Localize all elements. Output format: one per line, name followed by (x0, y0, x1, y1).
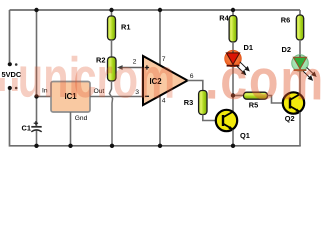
svg-text:R4: R4 (219, 14, 229, 23)
wire C1 column upper (36, 10, 38, 126)
watermark partial letter left edge (0, 45, 20, 109)
svg-text:R6: R6 (281, 16, 290, 25)
D2 emission arrows (303, 67, 316, 80)
wire pin7 (159, 10, 161, 65)
junction dot D1/R5/Q1 (231, 93, 235, 97)
wire R5 to Q2 base (268, 96, 291, 104)
C1 polarity plus (34, 121, 38, 125)
svg-text:Q2: Q2 (285, 114, 295, 123)
wire C1 column lower (36, 130, 38, 146)
regulator IC1 (51, 82, 90, 113)
wire top rail (10, 9, 301, 11)
svg-text:Gnd: Gnd (75, 115, 88, 122)
wire R4 top stub (232, 10, 234, 16)
junction dot In branch (34, 94, 38, 98)
wire R4 to D1 (232, 42, 234, 51)
D1 emission arrows (236, 62, 249, 75)
transistor Q1 (216, 110, 237, 131)
svg-text:Q1: Q1 (240, 131, 250, 140)
terminal 5VDC minus (8, 86, 18, 90)
junction dots bottom rail (34, 144, 235, 148)
op-amp minus input mark (145, 95, 149, 97)
wire IC1 ground (70, 112, 72, 146)
wire Out (90, 96, 143, 98)
resistor R4 (229, 16, 237, 43)
svg-text:6: 6 (190, 73, 194, 80)
wire D2 to Q2 collector (299, 71, 301, 94)
op-amp plus input mark (145, 65, 149, 69)
transistor Q2 (283, 92, 304, 113)
wire pin4 (159, 96, 161, 146)
watermark .com (205, 48, 321, 113)
LED D1 (225, 50, 242, 67)
wire R2 to ground with jog (109, 81, 112, 146)
svg-text:crom: crom (73, 46, 175, 111)
wire wiper arrow R2 to pin2 (123, 67, 144, 69)
svg-text:uni: uni (17, 45, 80, 110)
wire left supply bottom (10, 90, 301, 146)
svg-text:R3: R3 (184, 98, 193, 107)
capacitor C1 (31, 127, 41, 132)
wire R5 left stub (233, 95, 244, 97)
LED D2 (292, 55, 309, 72)
wire output pin6 to R3 (188, 81, 203, 91)
wire R1 top stub (111, 10, 113, 16)
wire R1-R2 (111, 40, 113, 57)
svg-text:R1: R1 (121, 23, 130, 32)
wire Q1 emitter to rail (232, 130, 234, 146)
resistor R3 (199, 91, 207, 115)
junction dots top rail (34, 8, 235, 12)
op-amp IC2 (143, 56, 188, 105)
svg-text:.com: .com (205, 48, 321, 113)
resistor R2 (108, 57, 117, 81)
wire R6 top stub (299, 10, 301, 15)
wire R6 to D2 (299, 40, 301, 55)
wire In (37, 96, 52, 98)
svg-text:C1: C1 (22, 123, 31, 132)
wire Q2 emitter to rail (299, 112, 301, 146)
terminal 5VDC plus (8, 62, 18, 66)
wire left supply top (9, 10, 11, 62)
resistor R1 (108, 16, 116, 40)
wire R3 to Q1 base (203, 115, 223, 121)
wire D1 to Q1 collector junction (232, 67, 234, 112)
resistor R6 (296, 15, 303, 40)
resistor R5 (244, 92, 268, 99)
watermark unicrom (17, 45, 175, 110)
